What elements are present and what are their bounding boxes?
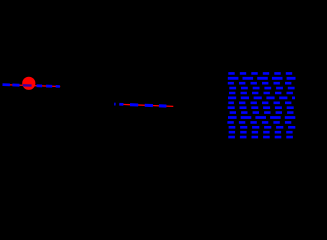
blue dash A6	[56, 85, 60, 88]
level row 12	[229, 126, 296, 129]
level row 13	[228, 131, 295, 134]
level row 6	[228, 97, 295, 100]
level row 2	[228, 77, 296, 80]
red solid line segment A (left, under blue dashes)	[3, 85, 61, 87]
blue dash B3	[145, 104, 153, 107]
blue dash B1	[119, 103, 123, 106]
blue dash A2	[12, 84, 19, 87]
level row 5	[228, 92, 295, 95]
level row 10	[228, 116, 295, 119]
level row 4	[229, 87, 295, 90]
level row 8	[228, 106, 296, 109]
level row 3	[228, 82, 295, 85]
red solid line segment B (middle, under blue dashes)	[119, 104, 173, 106]
level row 14	[228, 136, 295, 139]
level row 11	[227, 121, 295, 124]
blue dash B4	[159, 104, 167, 107]
level row 7	[228, 102, 295, 105]
level row 9	[228, 111, 294, 114]
violet dash over circle (blue dash blended over red marker)	[23, 84, 32, 87]
level row 1	[228, 72, 295, 75]
blue dash A1	[3, 83, 10, 86]
blue dash B2	[130, 103, 138, 106]
red circle marker	[22, 77, 35, 90]
blue tick B0 (start of middle dashed line)	[114, 103, 115, 106]
blue dash A5	[46, 85, 52, 88]
blue dash A4	[37, 84, 43, 87]
